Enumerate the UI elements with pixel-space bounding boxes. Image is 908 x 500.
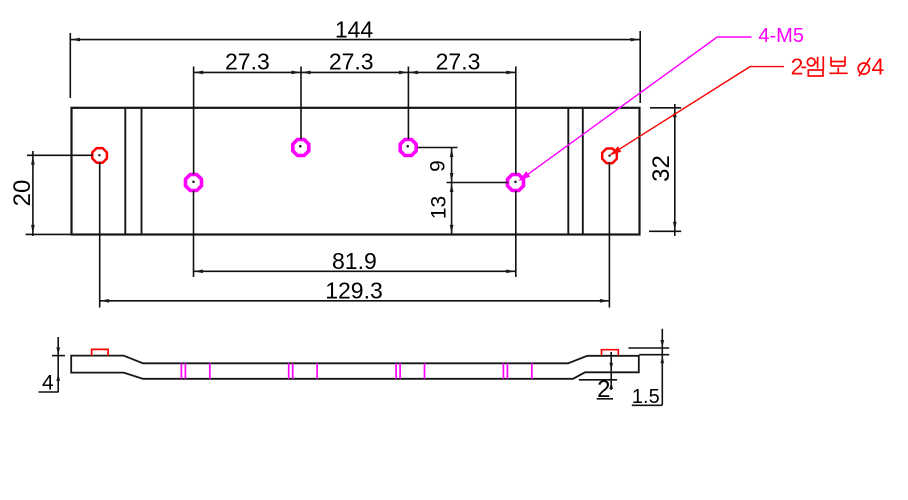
hole section lines (side view) bbox=[181, 363, 531, 379]
hangul BO bbox=[829, 56, 847, 73]
emboss mark left (side view) bbox=[92, 349, 109, 355]
dimension 129.3 bbox=[100, 162, 610, 307]
svg-text:27.3: 27.3 bbox=[436, 48, 481, 74]
hangul EM bbox=[807, 56, 823, 76]
svg-text:144: 144 bbox=[335, 17, 374, 43]
dimension 4 (side view left) bbox=[39, 337, 66, 392]
svg-text:4: 4 bbox=[42, 372, 54, 395]
dimension 20 bbox=[26, 151, 93, 236]
svg-text:1.5: 1.5 bbox=[632, 386, 660, 408]
svg-text:4-M5: 4-M5 bbox=[758, 25, 804, 47]
bend line left 1 bbox=[124, 108, 126, 235]
leader 4-M5 bbox=[520, 37, 752, 180]
svg-text:32: 32 bbox=[648, 155, 675, 182]
svg-text:20: 20 bbox=[9, 180, 36, 207]
svg-text:2: 2 bbox=[597, 376, 610, 403]
emboss hole #2 bbox=[602, 149, 617, 164]
dimension 2 (side view right) bbox=[579, 352, 617, 399]
leader 2-embo bbox=[611, 67, 785, 155]
dimension 144 bbox=[70, 31, 640, 103]
bend line right 2 bbox=[582, 108, 584, 235]
svg-text:129.3: 129.3 bbox=[325, 278, 383, 304]
dimension 9 and 13 bbox=[418, 148, 509, 235]
emboss mark right (side view) bbox=[602, 350, 619, 356]
tapped hole M5 #4 bbox=[508, 175, 524, 191]
tapped hole M5 #3 bbox=[400, 140, 416, 156]
bend line left 2 bbox=[141, 108, 143, 235]
emboss hole #1 bbox=[92, 148, 107, 163]
plate outline (top view) bbox=[72, 108, 640, 235]
svg-text:9: 9 bbox=[427, 160, 450, 172]
tapped hole M5 #2 bbox=[293, 140, 309, 156]
bend line right 1 bbox=[567, 108, 569, 235]
svg-text:27.3: 27.3 bbox=[225, 48, 270, 74]
dimension 1.5 (side view right) bbox=[628, 329, 669, 406]
diameter symbol bbox=[858, 58, 870, 76]
dimension 81.9 bbox=[194, 191, 516, 277]
svg-text:4: 4 bbox=[872, 54, 885, 80]
svg-text:27.3: 27.3 bbox=[329, 48, 374, 74]
hyphen bbox=[801, 66, 806, 68]
svg-text:13: 13 bbox=[428, 196, 451, 219]
tapped hole M5 #1 bbox=[186, 175, 202, 191]
dimension 27.3 x3 bbox=[194, 67, 516, 175]
label 2-embo dia4 bbox=[791, 54, 804, 80]
svg-text:81.9: 81.9 bbox=[332, 248, 377, 274]
side view outline bbox=[71, 356, 639, 379]
dimension 32 bbox=[649, 104, 681, 236]
